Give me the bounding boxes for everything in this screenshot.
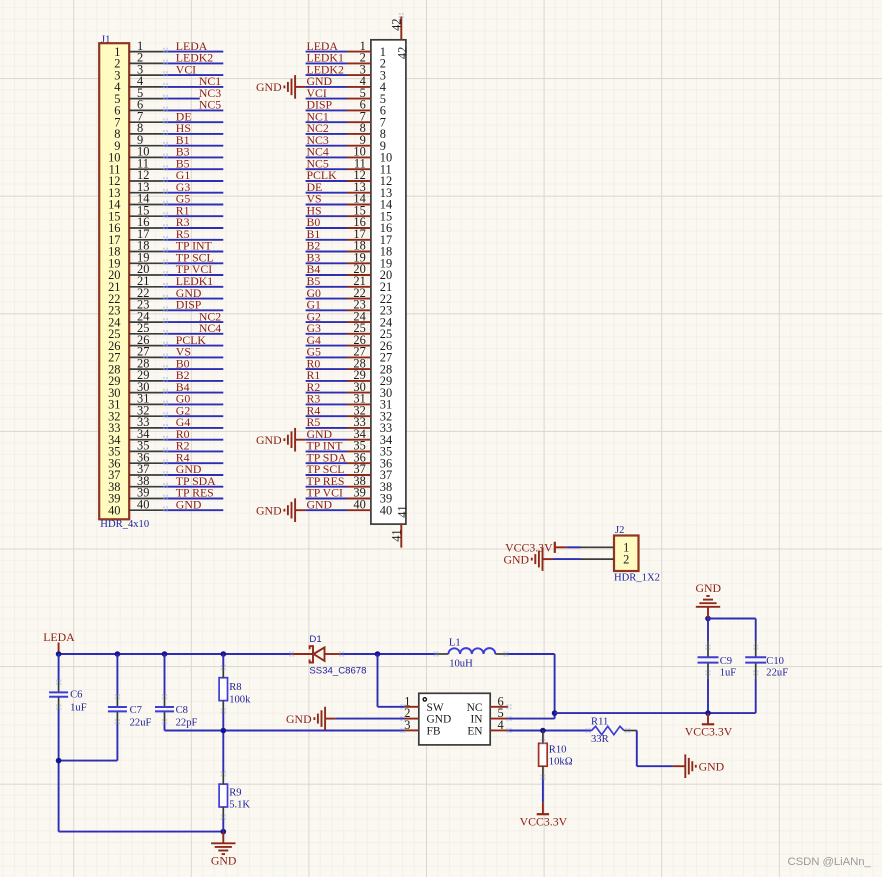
svg-text:GND: GND	[699, 759, 725, 773]
svg-text:10uH: 10uH	[449, 659, 473, 670]
svg-text:R9: R9	[229, 788, 241, 799]
svg-text:40: 40	[108, 503, 120, 517]
svg-text:R10: R10	[549, 744, 567, 755]
svg-text:GND: GND	[503, 552, 529, 566]
svg-text:GND: GND	[307, 497, 333, 511]
svg-text:42: 42	[396, 47, 410, 59]
svg-text:D1: D1	[309, 634, 321, 645]
svg-text:R8: R8	[229, 682, 241, 693]
svg-text:4: 4	[498, 718, 504, 732]
svg-text:C8: C8	[176, 705, 188, 716]
svg-text:22uF: 22uF	[766, 667, 788, 678]
svg-text:VCC3.3V: VCC3.3V	[520, 814, 568, 828]
svg-text:41: 41	[396, 505, 410, 517]
svg-text:GND: GND	[256, 80, 282, 94]
svg-text:C9: C9	[720, 656, 732, 667]
svg-text:5.1K: 5.1K	[229, 799, 250, 810]
svg-text:1uF: 1uF	[720, 668, 737, 679]
svg-text:22uF: 22uF	[130, 717, 152, 728]
svg-text:GND: GND	[256, 503, 282, 517]
svg-text:100k: 100k	[229, 695, 251, 706]
svg-text:GND: GND	[696, 581, 722, 595]
svg-text:1uF: 1uF	[70, 703, 87, 714]
svg-text:VCI: VCI	[176, 62, 196, 76]
svg-text:J2: J2	[615, 525, 624, 536]
svg-text:40: 40	[353, 497, 365, 511]
svg-text:GND: GND	[211, 853, 237, 867]
svg-text:HDR_1X2: HDR_1X2	[614, 573, 660, 584]
svg-text:L1: L1	[449, 637, 461, 648]
svg-text:R11: R11	[591, 716, 608, 727]
svg-text:HDR_4x10: HDR_4x10	[100, 519, 149, 530]
svg-text:CSDN @LiANn_: CSDN @LiANn_	[788, 856, 872, 868]
svg-text:VCC3.3V: VCC3.3V	[685, 724, 733, 738]
svg-text:NC: NC	[467, 702, 483, 714]
svg-text:GND: GND	[286, 712, 312, 726]
svg-text:41: 41	[390, 529, 404, 541]
svg-text:40: 40	[380, 503, 392, 517]
svg-text:LEDA: LEDA	[43, 630, 75, 644]
svg-text:40: 40	[137, 497, 149, 511]
svg-text:GND: GND	[176, 497, 202, 511]
svg-text:EN: EN	[467, 725, 482, 737]
svg-text:3: 3	[404, 718, 410, 732]
svg-text:2: 2	[623, 552, 629, 566]
svg-text:C6: C6	[70, 689, 82, 700]
svg-text:C7: C7	[130, 705, 142, 716]
svg-text:10kΩ: 10kΩ	[549, 756, 573, 767]
svg-text:NC5: NC5	[199, 98, 221, 112]
svg-text:IN: IN	[470, 714, 482, 726]
svg-text:22pF: 22pF	[176, 717, 198, 728]
svg-text:GND: GND	[427, 714, 452, 726]
svg-text:SW: SW	[427, 702, 444, 714]
svg-text:SS34_C8678: SS34_C8678	[309, 666, 366, 677]
svg-text:33R: 33R	[591, 734, 610, 745]
svg-text:42: 42	[390, 19, 404, 31]
svg-text:FB: FB	[427, 725, 441, 737]
svg-text:GND: GND	[256, 433, 282, 447]
svg-text:C10: C10	[766, 656, 784, 667]
